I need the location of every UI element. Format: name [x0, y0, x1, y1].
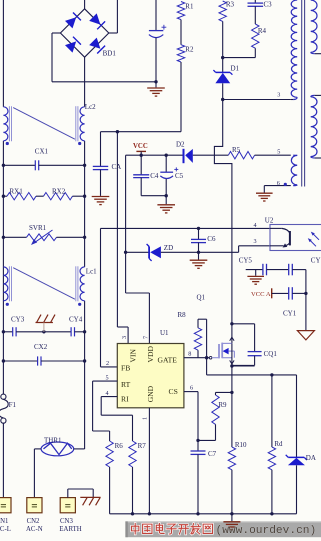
MOSFET Q1	[218, 344, 220, 358]
capacitor C4	[140, 155, 142, 175]
earth triangle symbol	[297, 331, 314, 340]
capacitor C7	[191, 450, 206, 452]
svg-text:3: 3	[277, 92, 280, 99]
junctions RX row to rails	[2, 195, 5, 198]
svg-text:GND: GND	[146, 385, 155, 402]
wire AC-L left rail	[2, 0, 4, 107]
svg-text:CN3: CN3	[60, 518, 73, 525]
wire R9 bottom to CS node	[215, 424, 217, 440]
capacitor C1 bulk electrolytic	[149, 30, 163, 32]
wire startup node to U1 VIN pin 3	[116, 132, 118, 327]
wire R4 bottom to snubber node	[254, 48, 256, 57]
junction and ground on minus rail	[154, 80, 157, 83]
svg-text:BD1: BD1	[103, 50, 117, 58]
svg-text:RX2: RX2	[52, 187, 66, 195]
node startup junction	[116, 130, 119, 133]
svg-text:AC-N: AC-N	[26, 526, 43, 533]
svg-text:R4: R4	[258, 27, 267, 35]
svg-text:R10: R10	[235, 441, 247, 449]
wire DA to ground rail	[296, 465, 298, 514]
junction snubber node	[221, 56, 224, 59]
transformer T1 primary winding	[291, 0, 297, 97]
svg-text:6: 6	[190, 384, 193, 391]
resistor R5	[228, 152, 254, 159]
wire bridge left corner to minus rail	[52, 32, 60, 34]
watermark banner	[125, 521, 321, 537]
bridge diode BD1 top-left	[65, 17, 76, 28]
U2 LED light arrows	[312, 233, 319, 240]
diode D1 clamp	[216, 71, 230, 73]
U2 phototransistor	[270, 227, 282, 229]
junction and ground below C6	[197, 251, 200, 254]
svg-text:3: 3	[254, 238, 257, 245]
svg-text:CY3: CY3	[11, 315, 25, 323]
svg-text:R1: R1	[185, 2, 194, 10]
wire R10 to ground rail	[231, 470, 233, 514]
capacitor CY1	[272, 292, 289, 294]
svg-text:R3: R3	[226, 1, 235, 9]
wire bridge right corner to top edge	[109, 32, 118, 34]
wire bulk cap bottom lead	[155, 38, 157, 82]
capacitors CY3 and CY4	[3, 331, 12, 333]
wire U1 GATE pin 8 to Q1 gate	[184, 357, 210, 359]
svg-text:CY1: CY1	[283, 309, 297, 317]
resistor R10	[228, 447, 235, 470]
svg-text:Q1: Q1	[197, 294, 206, 302]
svg-text:1: 1	[141, 417, 148, 420]
junctions CX1 to rails	[2, 164, 5, 167]
svg-text:C3: C3	[264, 1, 273, 9]
wire bridge top corner to top edge	[84, 0, 86, 9]
svg-text:3: 3	[121, 336, 128, 339]
ground below CY5	[255, 270, 257, 276]
svg-text:EARTH: EARTH	[59, 526, 81, 533]
wire FB line down to U1 pin 2	[100, 228, 102, 367]
svg-text:CY5: CY5	[239, 256, 253, 264]
wire R5 to transformer pin 5	[255, 154, 291, 156]
earth symbol between CY3 and CY4	[36, 322, 53, 324]
phase dot aux winding	[284, 183, 287, 186]
ground symbol below rail	[231, 514, 233, 521]
resistor R9	[212, 395, 219, 424]
wire to Rd	[271, 375, 273, 447]
svg-text:R7: R7	[138, 442, 147, 450]
wire minus rail	[52, 81, 156, 83]
svg-text:C4: C4	[150, 172, 159, 180]
capacitor CX2	[3, 360, 37, 362]
wire VDD node to ZD	[126, 251, 149, 253]
svg-text:R6: R6	[115, 442, 124, 450]
junctions SVR1 to rails	[2, 236, 5, 239]
bridge diode BD1 top-right	[89, 13, 100, 24]
resistor R7	[129, 441, 136, 467]
svg-text:2: 2	[106, 360, 109, 367]
wire CY row to corner	[292, 269, 306, 271]
wire THR1 left lead to CN2	[34, 448, 41, 450]
svg-text:Rd: Rd	[274, 440, 283, 448]
svg-text:CY4: CY4	[69, 315, 83, 323]
Q1 source arrow	[230, 360, 234, 364]
controller IC U1 body	[117, 344, 184, 408]
junction drain to CQ1 branch	[230, 322, 233, 325]
capacitor CA	[100, 132, 102, 167]
junction gate and R8	[205, 356, 208, 359]
svg-text:C7: C7	[208, 450, 217, 458]
wire ZD anode to U2 pin 3 branch	[161, 251, 239, 253]
svg-text:5: 5	[277, 148, 280, 155]
wire CN3 to earth symbol	[67, 489, 69, 498]
wire D2 anode to R5	[193, 154, 229, 156]
junction Rd branch	[270, 373, 273, 376]
zener diode DA	[288, 456, 304, 458]
junctions CY row	[2, 330, 5, 333]
svg-text:D1: D1	[231, 65, 240, 73]
varistor SVR1	[3, 236, 26, 238]
svg-text:CS: CS	[169, 387, 178, 396]
transformer T1 aux winding	[291, 155, 297, 185]
wire U1 GND pin 1 to ground rail	[148, 408, 150, 514]
resistor RX2	[44, 193, 73, 200]
wire bulk cap top lead	[155, 0, 157, 31]
svg-text:VDD: VDD	[146, 346, 155, 363]
capacitor CY series	[267, 269, 289, 271]
capacitor C6	[197, 227, 200, 230]
capacitor CY5	[246, 269, 263, 271]
resistor Rd	[268, 447, 275, 470]
capacitor CX1	[3, 164, 35, 166]
svg-text:SVR1: SVR1	[29, 224, 47, 232]
wire R2 bottom to startup node	[180, 62, 182, 132]
svg-text:R8: R8	[178, 311, 187, 319]
svg-text:6: 6	[277, 180, 280, 187]
junction VDD and ZD	[124, 251, 127, 254]
plus sign of bulk capacitor	[162, 26, 167, 28]
ground below CA	[92, 196, 110, 198]
junction CS filter node	[196, 439, 199, 442]
svg-text:AC-L: AC-L	[0, 526, 11, 533]
svg-text:CN1: CN1	[0, 518, 8, 525]
svg-text:5: 5	[106, 374, 109, 381]
connector CN3 EARTH	[60, 498, 75, 513]
wire to earth triangle	[305, 293, 307, 330]
svg-text:DA: DA	[306, 454, 316, 462]
svg-text:CN2: CN2	[27, 518, 40, 525]
svg-text:CX1: CX1	[35, 147, 49, 155]
wire R8 bottom to gate	[197, 350, 199, 358]
transformer T1 secondary winding upper	[311, 0, 317, 52]
choke Lc2 right winding	[80, 107, 85, 141]
junction source sense node	[230, 391, 233, 394]
wire Q1 source down	[231, 366, 233, 392]
wire FB to U2 pin 4	[101, 227, 271, 229]
svg-text:CX2: CX2	[34, 343, 48, 351]
svg-text:4: 4	[254, 222, 257, 229]
resistor R1	[177, 2, 184, 20]
choke Lc1 core and coupling line and phase dots and label	[8, 266, 10, 301]
wire to DA	[296, 375, 298, 458]
connector CN1 AC-L	[0, 498, 11, 513]
wire R1 to R2	[180, 20, 182, 45]
transformer T1 secondary winding lower	[311, 97, 317, 157]
svg-text:VCC: VCC	[133, 143, 148, 150]
junctions CX2 to rails	[2, 359, 5, 362]
junction Q1 source / wire to CQ1 bottom	[230, 364, 233, 367]
choke Lc2 left winding	[3, 107, 8, 141]
connector CN2 AC-N	[27, 498, 42, 513]
wire Rd to ground rail	[271, 470, 273, 514]
wire R8 top to source line	[197, 319, 199, 328]
capacitor C5 electrolytic	[165, 155, 167, 172]
svg-text:RX1: RX1	[10, 187, 24, 195]
fuse F1	[1, 394, 6, 399]
svg-text:U1: U1	[160, 329, 169, 337]
svg-text:THR1: THR1	[44, 436, 62, 444]
resistor R6	[106, 441, 113, 467]
svg-text:RT: RT	[121, 380, 131, 389]
wire THR1 right lead to rail	[74, 448, 85, 450]
Q1 gate input circle	[209, 356, 212, 359]
svg-text:7: 7	[142, 336, 149, 339]
svg-text:CQ1: CQ1	[264, 350, 278, 358]
wire to U2 pin 3	[238, 246, 240, 253]
junctions on ground rail	[131, 512, 134, 515]
svg-text:FB: FB	[121, 363, 130, 372]
zener diode ZD	[148, 247, 150, 259]
junction CY1 node	[304, 292, 307, 295]
capacitor CQ1	[232, 323, 255, 325]
svg-text:RI: RI	[121, 395, 129, 404]
resistor R4	[252, 24, 259, 48]
svg-text:VCC A: VCC A	[251, 291, 271, 298]
transformer T1 core	[301, 0, 303, 187]
choke Lc1 right winding	[80, 267, 85, 301]
wire R9 top to source node	[215, 392, 217, 395]
resistor RX1	[3, 195, 7, 197]
svg-text:ZD: ZD	[164, 244, 173, 252]
svg-text:Lc1: Lc1	[86, 267, 97, 275]
wire source node to R10	[231, 392, 233, 447]
bridge rectifier BD1 body	[60, 9, 108, 57]
svg-text:F1: F1	[9, 401, 17, 409]
svg-text:(www.ourdev.cn): (www.ourdev.cn)	[216, 525, 317, 537]
wire VCC stem	[140, 151, 142, 155]
svg-text:VIN: VIN	[129, 348, 138, 362]
svg-text:U2: U2	[265, 216, 274, 224]
wire U1 RT pin 5 to R6	[93, 380, 118, 382]
resistor R3	[219, 1, 226, 21]
svg-text:Lc2: Lc2	[85, 103, 96, 111]
wire R3 to snubber node	[222, 21, 224, 57]
choke Lc1 left winding	[3, 267, 8, 301]
wire VCC rail	[126, 154, 183, 156]
wire VDD to U1 pin 7	[126, 292, 150, 294]
svg-text:R5: R5	[232, 146, 241, 154]
wire U1 CS pin 6 down	[184, 391, 198, 393]
resistor R2	[177, 45, 184, 62]
junctions on VCC rail	[140, 154, 143, 157]
svg-text:8: 8	[188, 350, 191, 357]
wire U1 RI pin 4 to R7	[101, 396, 117, 398]
capacitor C3	[254, 0, 256, 3]
svg-text:R2: R2	[185, 45, 194, 53]
svg-text:R9: R9	[218, 401, 227, 409]
bridge diode BD1 bottom-left	[65, 41, 76, 52]
wire VDD line down	[125, 155, 127, 293]
svg-text:CY: CY	[311, 257, 321, 265]
resistor R8	[194, 328, 201, 350]
bridge diode BD1 bottom-right	[89, 38, 100, 49]
wire source line to output branch	[207, 374, 297, 376]
earth symbol near CN3	[80, 496, 100, 498]
ground at aux winding pin 6	[263, 186, 265, 193]
wire AC-N right rail	[84, 57, 86, 107]
wire ground rail	[110, 513, 297, 515]
diode D2	[183, 149, 185, 163]
Q1 drain arrow	[230, 337, 234, 341]
svg-text:D2: D2	[176, 141, 185, 149]
optocoupler U2 box	[270, 225, 321, 251]
watermark chinese text	[132, 524, 139, 534]
wire aux pin 6 to ground	[264, 185, 291, 187]
svg-text:C6: C6	[207, 235, 216, 243]
svg-text:GATE: GATE	[158, 355, 178, 364]
thermistor THR1	[41, 442, 74, 456]
svg-text:4: 4	[106, 390, 109, 397]
choke Lc2 core and coupling line and phase dots and label	[8, 106, 10, 141]
power port VCC bar	[136, 150, 146, 152]
junction and ground below C4 C5	[165, 194, 168, 197]
wire D1 anode to drain node	[222, 83, 224, 99]
junction drain node / wire to transformer pin 3	[221, 98, 224, 101]
wire drain node down to Q1 drain	[214, 100, 232, 344]
power port VCC A bar	[271, 288, 273, 298]
wires R6 R7 to ground rail	[109, 467, 111, 514]
svg-text:C5: C5	[175, 172, 184, 180]
svg-text:CA: CA	[112, 163, 122, 171]
